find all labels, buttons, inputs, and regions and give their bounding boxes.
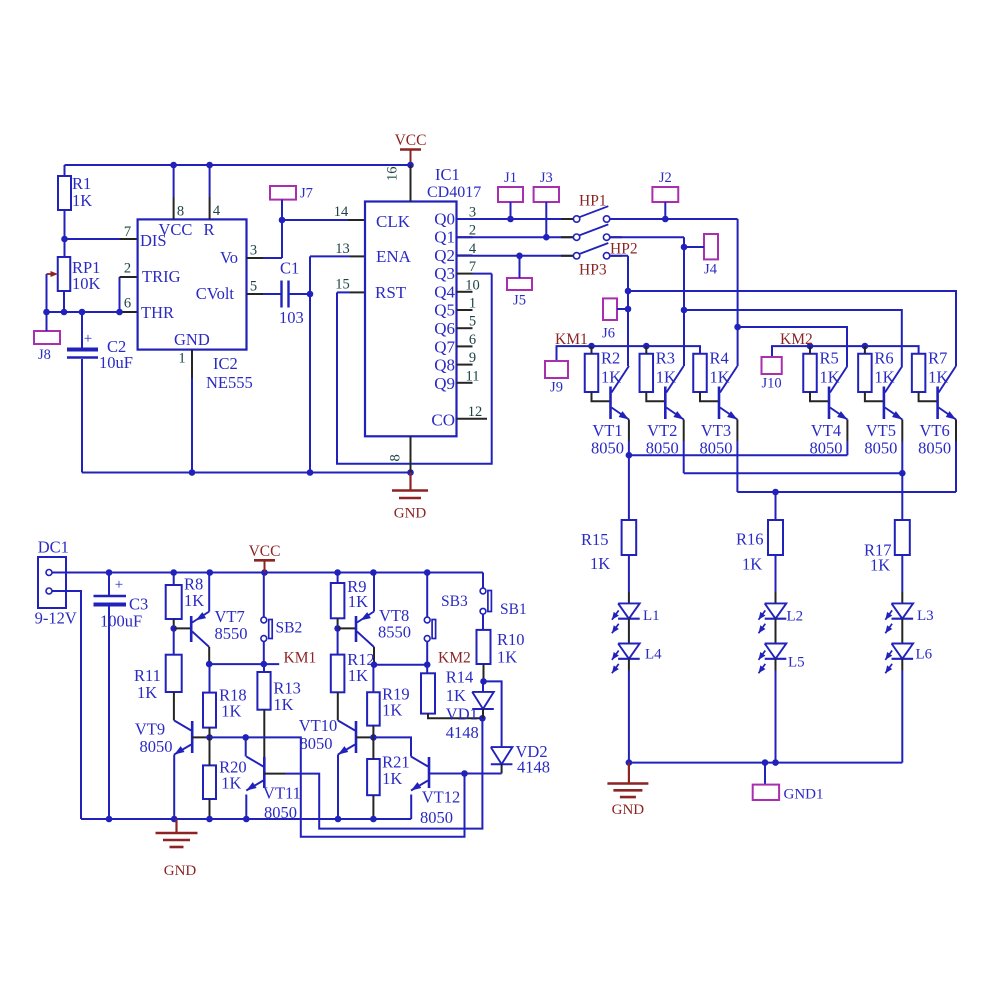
svg-text:VT11: VT11	[263, 784, 301, 803]
svg-text:VT3: VT3	[701, 421, 731, 440]
svg-text:+: +	[84, 331, 92, 347]
svg-text:L6: L6	[916, 647, 933, 663]
svg-text:14: 14	[334, 204, 349, 220]
svg-text:8: 8	[177, 204, 184, 220]
svg-text:Q0: Q0	[434, 209, 455, 228]
svg-text:VD1: VD1	[446, 705, 478, 724]
svg-text:L1: L1	[643, 608, 660, 624]
svg-text:VT9: VT9	[135, 720, 165, 739]
svg-text:1K: 1K	[590, 554, 610, 573]
svg-text:1K: 1K	[382, 769, 402, 788]
svg-text:2: 2	[124, 261, 131, 277]
svg-text:R5: R5	[820, 349, 839, 368]
svg-text:SB1: SB1	[500, 601, 527, 618]
svg-text:IC2: IC2	[213, 354, 238, 373]
svg-text:J2: J2	[659, 170, 672, 186]
svg-text:R: R	[204, 220, 215, 239]
svg-text:VT12: VT12	[422, 788, 461, 807]
svg-text:10uF: 10uF	[99, 353, 133, 372]
svg-text:GND1: GND1	[784, 787, 824, 803]
svg-text:8050: 8050	[918, 439, 951, 458]
svg-text:13: 13	[335, 241, 350, 257]
svg-text:KM2: KM2	[780, 331, 813, 348]
svg-text:GND: GND	[394, 506, 427, 522]
svg-text:J7: J7	[300, 186, 313, 202]
svg-text:C1: C1	[280, 259, 299, 278]
svg-text:1: 1	[178, 351, 185, 367]
svg-text:GND: GND	[174, 330, 210, 349]
svg-text:1K: 1K	[446, 686, 466, 705]
svg-text:R6: R6	[874, 349, 893, 368]
svg-text:4148: 4148	[446, 723, 479, 742]
svg-text:R7: R7	[928, 349, 947, 368]
svg-text:R14: R14	[446, 668, 474, 687]
svg-text:4: 4	[469, 241, 477, 257]
svg-text:RST: RST	[375, 283, 407, 302]
svg-text:1K: 1K	[273, 695, 293, 714]
svg-text:CLK: CLK	[376, 212, 411, 231]
svg-text:VT10: VT10	[299, 716, 338, 735]
svg-text:8050: 8050	[591, 439, 624, 458]
svg-text:Q6: Q6	[434, 319, 455, 338]
svg-text:R4: R4	[710, 349, 729, 368]
svg-text:Vo: Vo	[220, 248, 238, 267]
svg-text:1K: 1K	[221, 774, 241, 793]
svg-text:11: 11	[466, 368, 480, 384]
svg-text:103: 103	[279, 308, 304, 327]
svg-text:J8: J8	[38, 347, 51, 363]
svg-text:Q4: Q4	[434, 282, 455, 301]
svg-text:8050: 8050	[300, 734, 333, 753]
svg-text:5: 5	[469, 314, 476, 330]
svg-text:Q8: Q8	[434, 356, 455, 375]
svg-text:R2: R2	[601, 349, 620, 368]
svg-text:5: 5	[250, 279, 257, 295]
svg-text:DIS: DIS	[140, 231, 167, 250]
svg-text:7: 7	[124, 224, 131, 240]
svg-text:4: 4	[213, 203, 221, 219]
svg-text:8050: 8050	[420, 808, 453, 827]
svg-text:TRIG: TRIG	[142, 267, 181, 286]
svg-text:CVolt: CVolt	[196, 284, 235, 303]
svg-text:VCC: VCC	[249, 543, 281, 560]
svg-text:1K: 1K	[348, 592, 368, 611]
svg-text:VT5: VT5	[866, 421, 896, 440]
svg-text:ENA: ENA	[376, 247, 412, 266]
svg-text:Q7: Q7	[434, 337, 455, 356]
svg-text:GND: GND	[612, 802, 645, 818]
svg-text:L5: L5	[788, 655, 805, 671]
svg-text:R16: R16	[736, 530, 764, 549]
svg-text:L2: L2	[787, 609, 804, 625]
svg-text:+: +	[115, 577, 123, 593]
svg-text:8050: 8050	[864, 439, 897, 458]
svg-text:NE555: NE555	[206, 373, 253, 392]
svg-text:L4: L4	[645, 647, 662, 663]
svg-text:SB3: SB3	[441, 593, 468, 610]
svg-text:16: 16	[385, 167, 401, 182]
svg-text:15: 15	[335, 277, 350, 293]
svg-text:CD4017: CD4017	[427, 184, 481, 201]
svg-text:1K: 1K	[382, 701, 402, 720]
svg-text:J9: J9	[550, 380, 563, 396]
svg-text:SB2: SB2	[276, 620, 303, 637]
svg-text:1K: 1K	[137, 683, 157, 702]
svg-text:4148: 4148	[517, 758, 550, 777]
svg-text:CO: CO	[431, 411, 455, 430]
svg-text:J4: J4	[704, 262, 718, 278]
svg-text:THR: THR	[141, 303, 174, 322]
svg-text:1K: 1K	[184, 591, 204, 610]
svg-text:Q1: Q1	[434, 228, 455, 247]
svg-text:L3: L3	[917, 608, 934, 624]
svg-text:GND: GND	[164, 863, 197, 879]
svg-text:1K: 1K	[742, 555, 762, 574]
svg-text:J3: J3	[540, 170, 553, 186]
svg-text:Q9: Q9	[434, 374, 455, 393]
svg-text:KM1: KM1	[555, 331, 588, 348]
svg-text:10K: 10K	[72, 274, 101, 293]
svg-text:8550: 8550	[215, 624, 248, 643]
svg-text:R15: R15	[581, 530, 609, 549]
svg-text:VT1: VT1	[592, 421, 622, 440]
svg-text:HP1: HP1	[579, 193, 607, 210]
svg-text:VT6: VT6	[919, 421, 949, 440]
svg-text:Q5: Q5	[434, 301, 455, 320]
svg-text:1K: 1K	[221, 702, 241, 721]
svg-text:VT2: VT2	[647, 421, 677, 440]
svg-text:KM1: KM1	[284, 650, 317, 667]
svg-text:12: 12	[468, 404, 483, 420]
svg-text:R3: R3	[656, 349, 675, 368]
svg-text:IC1: IC1	[435, 165, 460, 184]
svg-text:10: 10	[465, 277, 480, 293]
svg-text:7: 7	[469, 259, 476, 275]
svg-text:J6: J6	[602, 326, 615, 342]
svg-text:8050: 8050	[140, 737, 173, 756]
svg-text:6: 6	[124, 296, 131, 312]
svg-text:J1: J1	[504, 170, 517, 186]
svg-text:Q2: Q2	[434, 246, 455, 265]
svg-text:VT4: VT4	[811, 421, 841, 440]
svg-text:KM2: KM2	[438, 650, 471, 667]
svg-text:J5: J5	[513, 293, 526, 309]
svg-text:3: 3	[250, 243, 257, 259]
svg-text:R10: R10	[497, 630, 525, 649]
svg-text:VCC: VCC	[395, 132, 427, 149]
svg-text:1K: 1K	[870, 556, 890, 575]
svg-text:1K: 1K	[348, 666, 368, 685]
svg-text:1K: 1K	[72, 191, 92, 210]
svg-text:HP3: HP3	[579, 262, 607, 279]
svg-text:8550: 8550	[378, 623, 411, 642]
svg-text:6: 6	[469, 332, 476, 348]
svg-text:1K: 1K	[497, 648, 517, 667]
svg-text:100uF: 100uF	[100, 612, 142, 631]
svg-text:Q3: Q3	[434, 264, 455, 283]
svg-text:9-12V: 9-12V	[35, 609, 77, 628]
svg-text:8: 8	[388, 454, 404, 461]
svg-text:9: 9	[469, 350, 476, 366]
svg-text:J10: J10	[762, 376, 782, 392]
svg-text:DC1: DC1	[38, 538, 69, 557]
svg-text:1: 1	[469, 296, 476, 312]
